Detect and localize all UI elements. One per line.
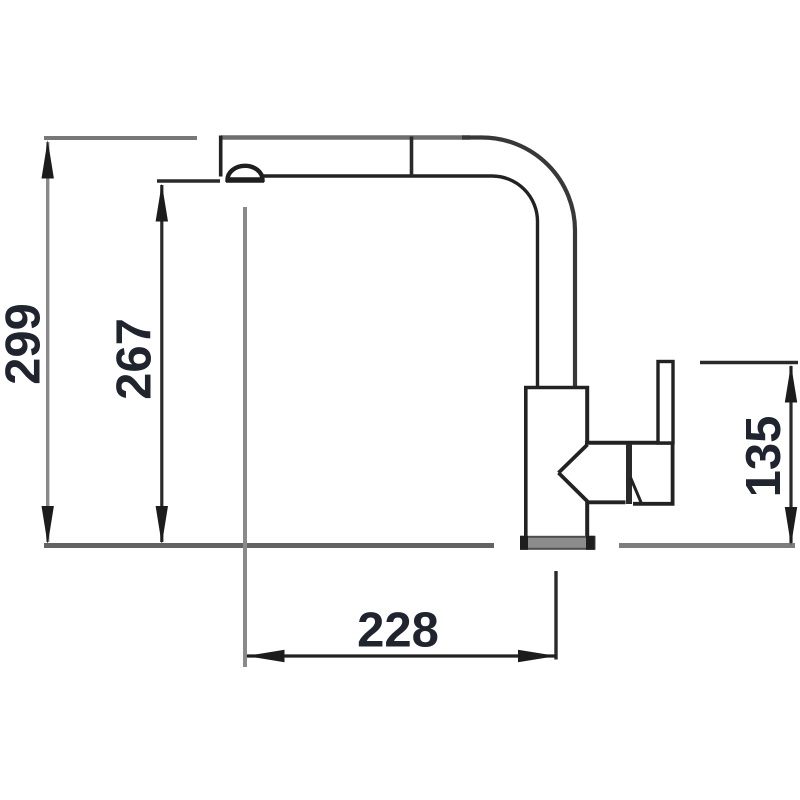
node: arrowhead bottom of dim 135	[785, 507, 797, 546]
seam line of pull-out spray head	[410, 137, 414, 177]
svg-text:135: 135	[737, 416, 791, 498]
spout left end edge	[219, 136, 223, 177]
cone upper diagonal into body	[559, 445, 588, 473]
base flange gray fill	[521, 537, 595, 549]
wire: dimension line 228 (horizontal)	[247, 654, 556, 657]
valve housing bottom right segment	[633, 502, 675, 506]
svg-text:299: 299	[0, 303, 51, 385]
aerator dome under spout head	[228, 166, 263, 180]
valve housing right edge	[671, 441, 675, 506]
handle lever	[658, 362, 673, 444]
valve housing bottom left segment	[586, 500, 626, 504]
spout outer curve and outer neck line	[462, 138, 575, 390]
wire: dimension line 267 (vertical, black)	[160, 185, 163, 542]
wire: extension line top for dim 135 (handle top level)	[700, 361, 798, 364]
wire: countertop baseline right segment	[619, 543, 795, 548]
valve housing top line	[585, 441, 675, 445]
node: arrowhead top of dim 135	[785, 365, 797, 403]
node: arrowhead top of dim 267	[156, 184, 168, 222]
node: arrowhead bottom of dim 299	[42, 506, 54, 545]
wire: extension line for dim 267	[157, 179, 220, 182]
wire: extension line top-left for dim 299	[44, 136, 197, 140]
base flange left cap	[520, 536, 528, 550]
body left edge	[524, 386, 528, 538]
base flange right cap	[586, 536, 595, 550]
node: arrowhead bottom of dim 267	[156, 506, 168, 545]
aerator dome base bar	[226, 177, 264, 183]
body right edge upper segment	[585, 386, 589, 444]
node: arrowhead left of dim 228	[246, 650, 285, 662]
body top shoulder	[524, 386, 589, 390]
node: arrowhead top of dim 299	[42, 140, 54, 179]
valve cartridge divider line	[626, 444, 632, 504]
node: arrowhead right of dim 228	[518, 650, 557, 662]
spout bottom line, inner curve and inner neck line	[256, 176, 538, 389]
wire: countertop baseline left segment	[44, 543, 494, 548]
spout top outline (gray straight section)	[221, 135, 470, 140]
wire: dimension line 299 (vertical, gray)	[46, 142, 49, 542]
valve internal diagonal	[631, 478, 642, 504]
svg-text:228: 228	[357, 604, 439, 658]
wire: extension line right for dim 228	[554, 571, 557, 660]
svg-text:267: 267	[108, 318, 162, 400]
wire: extension line left for dim 228 (spout centerline, gray)	[243, 207, 247, 667]
cone lower diagonal into body	[559, 473, 588, 502]
wire: dimension line 135 (vertical)	[789, 366, 792, 543]
body right edge lower segment	[585, 501, 589, 538]
